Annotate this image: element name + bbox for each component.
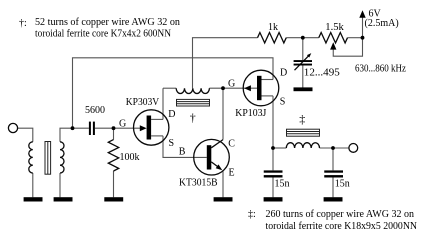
svg-text:G: G [228,79,235,90]
svg-text:KP303V: KP303V [126,97,160,108]
svg-text:(2.5mA): (2.5mA) [365,18,399,29]
svg-text:KP103J: KP103J [235,108,266,119]
svg-text:S: S [169,138,175,149]
svg-text:15n: 15n [335,178,350,189]
svg-text:S: S [280,97,286,108]
svg-text:52 turns of copper wire AWG 32: 52 turns of copper wire AWG 32 on [35,17,180,28]
svg-text:D: D [168,109,175,120]
svg-text:‡:: ‡: [248,209,256,220]
svg-text:G: G [119,119,126,130]
svg-text:260 turns of copper wire AWG 3: 260 turns of copper wire AWG 32 on [266,209,415,220]
svg-text:toroidal ferrite core K18x9x5: toroidal ferrite core K18x9x5 2000NN [266,221,418,232]
svg-text:5600: 5600 [85,105,105,116]
svg-text:15n: 15n [275,178,290,189]
svg-text:630...860 kHz: 630...860 kHz [355,63,406,74]
svg-text:C: C [228,138,235,149]
svg-text:B: B [179,147,186,158]
svg-text:E: E [229,168,235,179]
svg-text:†: † [190,110,196,124]
svg-text:KT3015B: KT3015B [179,177,218,188]
svg-text:1k: 1k [268,22,278,33]
svg-text:100k: 100k [120,152,140,163]
svg-text:D: D [280,67,287,78]
svg-text:1.5k: 1.5k [325,22,344,33]
svg-text:12...495: 12...495 [304,68,340,79]
svg-text:‡: ‡ [299,112,305,126]
svg-text:toroidal ferrite core K7x4x2 6: toroidal ferrite core K7x4x2 600NN [35,29,171,40]
svg-text:†:: †: [19,18,27,29]
